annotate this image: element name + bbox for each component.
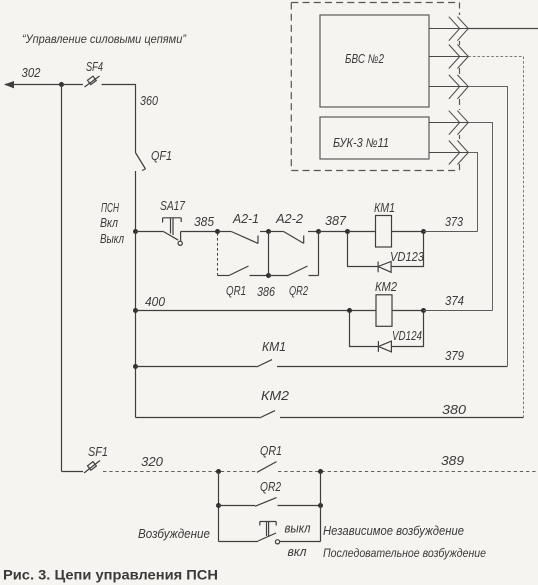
contact QR2 (bypass) [269,232,319,276]
wire QF1 down to SA17 row [135,171,137,232]
wire to SF4 [62,84,84,86]
svg-text:A2-2: A2-2 [275,212,303,226]
diode VD123 branch [348,233,424,272]
svg-text:БУК-3 №11: БУК-3 №11 [333,136,389,150]
node 385 [215,229,220,234]
node 373 [421,229,426,234]
left bus vertical [61,85,63,472]
node KM1 contact row [133,364,138,369]
svg-text:вкл: вкл [288,545,307,559]
wire 387 to coil KM1 [348,231,376,233]
wire bypass left dashed [217,233,219,276]
contact A2-1 [218,232,269,244]
wire coil KM2 to node 374 [392,310,424,312]
contact KM2 [260,411,524,418]
node A2-2 right [316,229,321,234]
wire БВС output 3 [429,86,468,88]
contact QR2 [219,498,321,507]
contact KM1 [136,360,508,367]
svg-text:Рис. 3. Цепи управления ПСН: Рис. 3. Цепи управления ПСН [3,567,218,583]
node 400 [133,308,138,313]
wire SA17 to node 385 [181,231,218,233]
switch SA17 [163,218,183,246]
connector X5 [449,141,469,165]
svg-text:SA17: SA17 [160,199,186,213]
wire SF1 row start [62,471,84,473]
connector X4 [449,111,469,135]
svg-text:387: 387 [325,214,347,228]
corner KM2 contact row [136,417,260,419]
wire QR2 right riser [320,472,322,542]
svg-text:A2-1: A2-1 [232,212,259,226]
wire 320 dashed row [103,471,257,473]
coil KM2 [376,295,392,327]
svg-text:“Управление силовыми цепями”: “Управление силовыми цепями” [22,32,187,46]
bus vertical SA17 to KM2 coil row [135,232,137,418]
connector X3 [449,75,469,99]
node 374 [421,308,426,313]
node 387 [345,229,350,234]
node QR2 riser right top [318,469,323,474]
wire net 373 riser [468,153,477,232]
contact A2-2 [269,232,319,244]
svg-text:SF1: SF1 [88,445,108,459]
wire net 380 riser [468,57,523,418]
svg-text:КМ2: КМ2 [375,280,397,294]
svg-text:302: 302 [22,66,41,80]
wire 400 row to KM2 coil [136,310,377,312]
wire coil KM1 to node 373 [392,231,424,233]
wire QR2 left riser [218,472,220,542]
dashed block border [291,3,459,171]
connector X2 [449,45,469,69]
svg-text:QR2: QR2 [289,284,308,298]
svg-text:385: 385 [194,215,214,229]
contact QR1 (bypass) [218,266,269,276]
svg-text:QR1: QR1 [226,284,246,298]
diode VD124 branch [350,313,424,352]
svg-text:Вкл: Вкл [100,216,118,230]
node QR2 right [318,503,323,508]
wire 373 to right riser [424,231,478,233]
wire to node 387 [319,231,348,233]
wire БВС output 1 [429,28,468,30]
wire to SA17 [136,231,164,233]
svg-text:360: 360 [140,94,158,108]
wire net 379 riser [468,87,507,367]
svg-text:QF1: QF1 [151,149,172,163]
svg-text:КМ1: КМ1 [374,201,395,215]
svg-text:320: 320 [141,455,163,469]
dashed border right edge segments [459,3,461,171]
block БВС №2 [320,15,429,107]
svg-text:VD124: VD124 [392,329,422,343]
switch excitation [219,522,321,544]
svg-text:Независимое возбуждение: Независимое возбуждение [323,524,464,538]
breaker SF1 [84,461,100,474]
wire SF4 to corner and down (360) [102,85,136,153]
svg-text:389: 389 [441,454,464,468]
svg-text:SF4: SF4 [86,60,103,74]
svg-text:выкл: выкл [285,522,311,536]
svg-text:380: 380 [442,403,466,417]
label ПСН Вкл Выкл [100,201,124,246]
wire 386 riser [268,232,270,276]
breaker QF1 [135,153,145,171]
connector X1 [449,17,469,41]
wire 374 to right riser [424,310,493,312]
svg-text:БВС №2: БВС №2 [345,52,384,66]
node QR1 row left [216,469,221,474]
wire 302 with left arrow [4,81,62,88]
svg-text:Последовательное возбуждение: Последовательное возбуждение [323,546,486,560]
contact QR1 [257,462,277,473]
svg-text:379: 379 [445,349,464,363]
svg-text:КМ2: КМ2 [261,389,289,403]
node junction 302/SF4 [59,82,64,87]
wire БВС output 2 [429,56,468,58]
svg-text:Выкл: Выкл [100,232,124,246]
svg-text:Возбуждение: Возбуждение [138,527,210,541]
svg-text:VD123: VD123 [390,250,424,264]
node KM2 coil left [347,308,352,313]
svg-text:386: 386 [257,285,275,299]
node 386 [266,273,271,278]
node A2-1/A2-2 [266,229,271,234]
svg-text:QR2: QR2 [260,480,281,494]
wire net 1 to right edge [468,28,538,30]
svg-text:374: 374 [445,294,464,308]
block БУК-3 №11 [320,117,429,159]
wire БУК output 1 [429,122,468,124]
breaker SF4 [85,76,100,87]
svg-text:QR1: QR1 [260,444,282,458]
svg-text:КМ1: КМ1 [262,340,286,354]
svg-text:400: 400 [145,295,165,309]
svg-text:373: 373 [445,215,463,229]
svg-text:ПСН: ПСН [101,201,120,215]
coil KM1 [376,216,392,248]
node SA17 left [133,229,138,234]
wire net 374 riser [468,123,492,311]
wire БУК output 2 [429,152,468,154]
node QR2 left [216,503,221,508]
